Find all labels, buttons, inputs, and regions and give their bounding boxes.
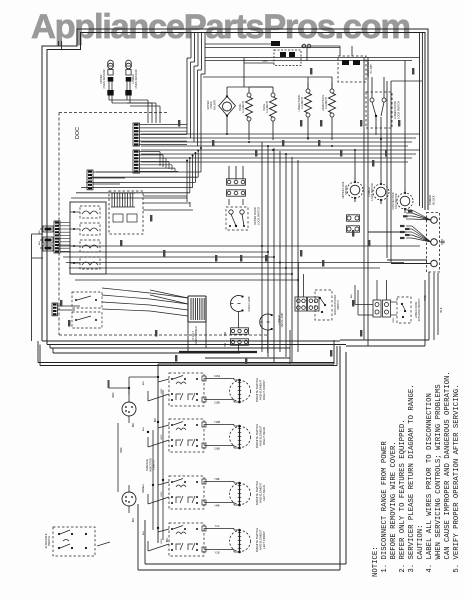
svg-text:ELEMENT: ELEMENT	[266, 101, 269, 113]
svg-text:OVEN LAMP: OVEN LAMP	[247, 296, 251, 311]
svg-text:BLK: BLK	[133, 422, 135, 427]
svg-text:LIGHTS: LIGHTS	[152, 460, 156, 470]
svg-text:RED: RED	[393, 317, 395, 322]
svg-text:H4B: H4B	[215, 478, 220, 481]
svg-text:OVEN LAMP: OVEN LAMP	[281, 312, 284, 327]
svg-text:BLOCK: BLOCK	[431, 195, 435, 204]
svg-text:NOTICE:: NOTICE:	[372, 546, 380, 577]
svg-text:AppliancePartsPros.com: AppliancePartsPros.com	[31, 8, 411, 46]
svg-text:TAN: TAN	[224, 331, 227, 336]
svg-text:1. DISCONNECT RANGE FROM POWER: 1. DISCONNECT RANGE FROM POWER	[381, 441, 389, 573]
svg-text:RED: RED	[121, 447, 123, 452]
svg-text:ELEMENT: ELEMENT	[242, 101, 245, 113]
svg-text:HI-LIMIT: HI-LIMIT	[212, 100, 216, 111]
svg-text:RIGHT FRONT: RIGHT FRONT	[262, 380, 266, 400]
svg-text:RED: RED	[113, 392, 115, 397]
svg-text:BLK: BLK	[143, 530, 145, 535]
svg-text:TRANSFORMER: TRANSFORMER	[195, 326, 198, 346]
svg-text:HI LIMIT: HI LIMIT	[370, 64, 373, 74]
svg-text:WHEN SERVICING CONTROLS; WIRIN: WHEN SERVICING CONTROLS; WIRING PROBLEMS	[435, 384, 443, 560]
svg-text:BLK: BLK	[133, 517, 135, 522]
svg-text:LEFT REAR: LEFT REAR	[262, 485, 266, 501]
svg-text:216B: 216B	[214, 448, 220, 451]
svg-text:ELEMENT: ELEMENT	[325, 97, 328, 109]
svg-text:3. SERVICER PLEASE RETURN DIAG: 3. SERVICER PLEASE RETURN DIAGRAM TO RAN…	[408, 384, 416, 572]
svg-text:215B: 215B	[214, 402, 220, 405]
svg-text:LOCK SWITCH: LOCK SWITCH	[396, 101, 400, 119]
svg-text:Y15B: Y15B	[214, 421, 220, 424]
svg-text:CAN CAUSE IMPROPER AND DANGERO: CAN CAUSE IMPROPER AND DANGEROUS OPERATI…	[444, 371, 452, 559]
svg-text:5. VERIFY PROPER OPERATION AFT: 5. VERIFY PROPER OPERATION AFTER SERVICI…	[453, 384, 461, 572]
svg-text:DOC: DOC	[75, 127, 81, 139]
svg-text:H4B: H4B	[215, 505, 220, 508]
svg-text:BLK: BLK	[439, 307, 443, 312]
svg-text:LEFT FRONT: LEFT FRONT	[262, 531, 266, 549]
svg-text:BLK: BLK	[143, 483, 145, 488]
svg-text:BLK: BLK	[155, 417, 157, 422]
svg-text:BLK: BLK	[39, 229, 41, 234]
svg-text:FAN MOTOR: FAN MOTOR	[394, 193, 398, 208]
svg-text:SWITCH: SWITCH	[337, 300, 340, 310]
svg-text:OVEN SENSOR: OVEN SENSOR	[134, 69, 138, 88]
svg-text:CAUTION:: CAUTION:	[417, 524, 425, 559]
svg-text:L1N: L1N	[263, 59, 268, 63]
svg-text:ELEMENT: ELEMENT	[301, 97, 304, 109]
svg-text:BLK: BLK	[39, 240, 41, 245]
svg-text:4. LABEL ALL WIRES PRIOR TO DI: 4. LABEL ALL WIRES PRIOR TO DISCONNECTIO…	[426, 393, 434, 573]
svg-text:RIGHT REAR: RIGHT REAR	[262, 427, 266, 445]
svg-text:Y1B: Y1B	[215, 552, 220, 555]
svg-text:ACTUATED SWITCH: ACTUATED SWITCH	[418, 298, 421, 321]
svg-text:Y1A: Y1A	[215, 525, 220, 528]
svg-text:SWITCH: SWITCH	[47, 536, 51, 546]
svg-text:MOTOR: MOTOR	[344, 185, 348, 195]
svg-text:BLK: BLK	[351, 293, 353, 298]
svg-text:TOD: TOD	[423, 295, 427, 301]
svg-text:OVEN SENSOR: OVEN SENSOR	[102, 69, 106, 88]
svg-text:LOCK SWITCH: LOCK SWITCH	[256, 207, 260, 225]
svg-text:BEFORE REMOVING WIRE COVER.: BEFORE REMOVING WIRE COVER.	[390, 441, 398, 559]
svg-text:BLK: BLK	[143, 380, 145, 385]
svg-text:2. REFER ONLY TO FEATURES EQUI: 2. REFER ONLY TO FEATURES EQUIPPED.	[399, 419, 407, 572]
svg-text:LOCK MOTOR: LOCK MOTOR	[370, 183, 374, 201]
svg-text:BLK: BLK	[143, 426, 145, 431]
svg-text:TAN: TAN	[224, 342, 227, 347]
svg-text:C15A: C15A	[214, 375, 221, 378]
